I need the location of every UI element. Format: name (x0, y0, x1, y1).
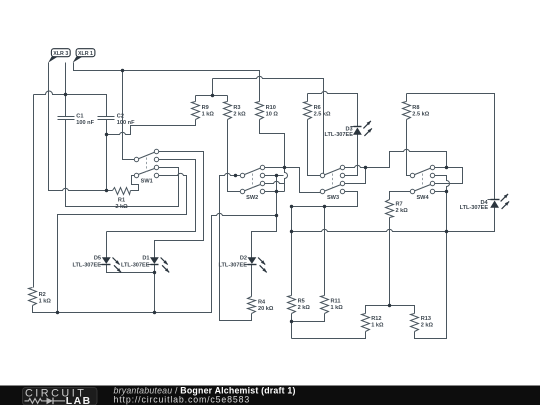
svg-text:2 kΩ: 2 kΩ (421, 323, 434, 329)
svg-text:2.5 kΩ: 2.5 kΩ (314, 112, 331, 118)
svg-text:SW1: SW1 (141, 178, 153, 184)
svg-text:http://circuitlab.com/c5e8583: http://circuitlab.com/c5e8583 (114, 395, 251, 405)
svg-text:R11: R11 (331, 299, 341, 305)
svg-text:R9: R9 (202, 105, 209, 111)
svg-text:SW4: SW4 (416, 195, 429, 201)
svg-text:XLR 3: XLR 3 (53, 51, 68, 57)
svg-text:2.5 kΩ: 2.5 kΩ (412, 112, 429, 118)
svg-text:LTL-307EE: LTL-307EE (121, 262, 150, 268)
svg-text:R2: R2 (39, 292, 46, 298)
svg-text:LTL-307EE: LTL-307EE (219, 262, 248, 268)
svg-text:R6: R6 (314, 105, 321, 111)
svg-text:D2: D2 (240, 256, 247, 262)
svg-text:XLR 1: XLR 1 (78, 51, 93, 57)
svg-text:LTL-307EE: LTL-307EE (460, 205, 489, 211)
svg-text:1 kΩ: 1 kΩ (331, 305, 344, 311)
svg-text:C2: C2 (117, 114, 124, 120)
svg-text:LTL-307EE: LTL-307EE (73, 262, 102, 268)
svg-text:2 kΩ: 2 kΩ (298, 305, 311, 311)
svg-text:C1: C1 (76, 114, 83, 120)
svg-text:LAB: LAB (66, 396, 92, 405)
svg-text:R5: R5 (298, 299, 305, 305)
svg-text:1 kΩ: 1 kΩ (39, 299, 52, 305)
svg-text:SW3: SW3 (327, 195, 339, 201)
svg-text:R10: R10 (266, 105, 276, 111)
svg-text:10 Ω: 10 Ω (266, 112, 279, 118)
svg-text:2 kΩ: 2 kΩ (115, 204, 128, 210)
svg-text:1 kΩ: 1 kΩ (202, 112, 215, 118)
svg-text:R3: R3 (233, 105, 240, 111)
svg-text:20 kΩ: 20 kΩ (258, 306, 274, 312)
svg-text:2 kΩ: 2 kΩ (233, 112, 246, 118)
svg-text:R7: R7 (396, 202, 403, 208)
svg-text:1 kΩ: 1 kΩ (371, 323, 384, 329)
svg-text:SW2: SW2 (246, 195, 258, 201)
svg-text:R4: R4 (258, 300, 266, 306)
svg-text:100 nF: 100 nF (117, 120, 135, 126)
svg-text:R12: R12 (371, 316, 381, 322)
svg-text:D5: D5 (94, 256, 101, 262)
svg-text:R13: R13 (421, 316, 431, 322)
svg-text:LTL-307EE: LTL-307EE (325, 132, 354, 138)
svg-text:R8: R8 (412, 105, 419, 111)
svg-text:R1: R1 (118, 198, 125, 204)
svg-text:2 kΩ: 2 kΩ (396, 208, 409, 214)
svg-text:100 nF: 100 nF (76, 120, 94, 126)
svg-text:D1: D1 (142, 256, 149, 262)
